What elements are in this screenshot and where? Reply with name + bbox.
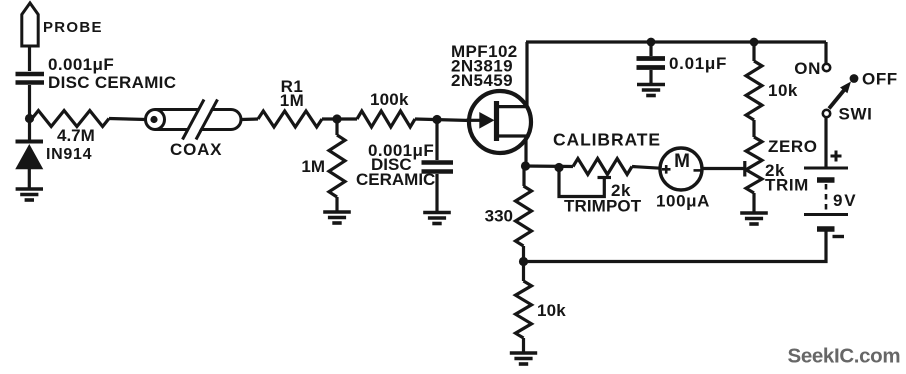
watermark SeekIC.com bbox=[788, 345, 901, 368]
svg-text:OFF: OFF bbox=[862, 70, 898, 89]
svg-text:0.001μF: 0.001μF bbox=[48, 55, 114, 74]
svg-text:330: 330 bbox=[485, 207, 513, 226]
resistor R1 1M bbox=[258, 77, 322, 127]
svg-text:ZERO: ZERO bbox=[768, 137, 818, 156]
potentiometer ZERO 2k TRIM bbox=[745, 137, 818, 213]
wire 100k to gate bbox=[415, 119, 470, 121]
node E (10k tap) bbox=[750, 38, 759, 47]
ground (below lower 10k) bbox=[510, 353, 537, 364]
ground (below 1M) bbox=[323, 212, 351, 223]
node D (0.01uF tap) bbox=[647, 38, 656, 47]
svg-text:IN914: IN914 bbox=[46, 146, 92, 163]
svg-text:DISC CERAMIC: DISC CERAMIC bbox=[48, 73, 176, 92]
resistor 10k (upper) bbox=[746, 42, 798, 137]
svg-text:SeekIC.com: SeekIC.com bbox=[788, 345, 901, 368]
diode D1 IN914 bbox=[16, 142, 93, 190]
svg-text:ON: ON bbox=[794, 59, 821, 78]
capacitor C3 0.01uF bbox=[637, 42, 728, 84]
svg-text:1M: 1M bbox=[301, 157, 325, 176]
svg-text:PROBE: PROBE bbox=[43, 19, 103, 36]
svg-text:10k: 10k bbox=[768, 81, 798, 100]
ground (below C3) bbox=[637, 85, 665, 96]
coax cable bbox=[146, 100, 242, 160]
svg-text:4.7M: 4.7M bbox=[57, 126, 95, 145]
JFET Q1 MPF102/2N3819/2N5459 bbox=[451, 42, 531, 166]
svg-text:SWI: SWI bbox=[839, 105, 873, 124]
svg-text:CALIBRATE: CALIBRATE bbox=[553, 130, 661, 150]
svg-text:TRIMPOT: TRIMPOT bbox=[564, 197, 642, 216]
svg-text:COAX: COAX bbox=[170, 140, 222, 159]
node G (330/10k/bottom rail junction) bbox=[519, 257, 528, 266]
svg-text:9V: 9V bbox=[833, 191, 857, 210]
node F (source/330/trimpot junction) bbox=[554, 163, 563, 172]
wire calibrate to meter bbox=[632, 167, 662, 169]
svg-text:10k: 10k bbox=[537, 301, 566, 320]
svg-text:2N5459: 2N5459 bbox=[451, 71, 513, 90]
wire R1 to 100k bbox=[322, 117, 357, 120]
ground (below C2) bbox=[423, 213, 451, 224]
wire top rail (drain to switch) bbox=[526, 40, 826, 43]
potentiometer CALIBRATE 2k TRIMPOT bbox=[553, 130, 661, 216]
battery 9V bbox=[804, 151, 857, 237]
resistor 4.7M bbox=[32, 111, 109, 146]
svg-text:0.01μF: 0.01μF bbox=[669, 54, 727, 73]
resistor 330 bbox=[485, 166, 532, 262]
wire meter to ZERO wiper bbox=[701, 167, 744, 170]
svg-text:100μA: 100μA bbox=[656, 192, 710, 211]
wire switch pole to battery + bbox=[824, 118, 827, 169]
wire coax to R1 bbox=[241, 117, 258, 121]
wire 4.7M to coax bbox=[109, 119, 146, 120]
wire battery - to bottom rail bbox=[523, 231, 826, 262]
meter M1 100uA bbox=[656, 148, 710, 211]
svg-text:1M: 1M bbox=[280, 91, 305, 110]
node A (probe junction) bbox=[25, 114, 34, 123]
ground (below IN914) bbox=[16, 189, 43, 200]
svg-text:100k: 100k bbox=[370, 90, 409, 109]
node H (source junction) bbox=[521, 161, 530, 170]
ground (below ZERO trim) bbox=[740, 213, 768, 224]
resistor 10k (lower) bbox=[516, 262, 567, 353]
probe tip bbox=[22, 3, 103, 46]
resistor 100k bbox=[357, 90, 415, 127]
svg-text:M: M bbox=[674, 151, 690, 172]
switch SWI (ON/OFF) bbox=[794, 59, 898, 124]
capacitor C2 0.001uF DISC CERAMIC bbox=[356, 120, 453, 213]
wire probe to C1 bbox=[28, 46, 31, 71]
wire C1 to node A bbox=[28, 85, 31, 143]
capacitor C1 0.001uF DISC CERAMIC bbox=[16, 55, 177, 92]
node C (100k/C2/gate junction) bbox=[432, 115, 441, 124]
wire rail corner to ON contact bbox=[824, 42, 827, 64]
svg-text:TRIM: TRIM bbox=[765, 176, 809, 195]
resistor 1M (to ground) bbox=[301, 119, 345, 212]
wire source to calibrate pot bbox=[524, 164, 573, 168]
node B (R1/1M junction) bbox=[332, 114, 341, 123]
svg-text:CERAMIC: CERAMIC bbox=[356, 170, 435, 189]
